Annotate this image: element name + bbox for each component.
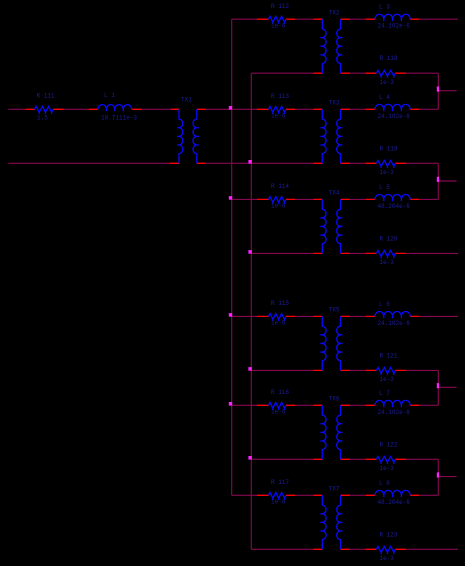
svg-text:1e-6: 1e-6 (271, 499, 286, 506)
svg-text:L 6: L 6 (379, 301, 390, 308)
svg-text:L 3: L 3 (379, 4, 390, 11)
svg-text:R 111: R 111 (37, 93, 55, 100)
svg-text:1e-6: 1e-6 (271, 320, 286, 327)
svg-text:1e-3: 1e-3 (380, 376, 395, 383)
svg-text:1e-6: 1e-6 (271, 22, 286, 29)
svg-text:R 121: R 121 (380, 352, 398, 359)
svg-text:48.204e-6: 48.204e-6 (378, 203, 411, 210)
svg-text:L 1: L 1 (104, 92, 115, 99)
svg-text:1e-6: 1e-6 (271, 113, 286, 120)
svg-text:1e-3: 1e-3 (380, 465, 395, 472)
svg-text:R 114: R 114 (271, 183, 289, 190)
svg-text:R 113: R 113 (271, 93, 289, 100)
svg-text:TX2: TX2 (329, 9, 340, 16)
svg-text:R 122: R 122 (380, 441, 398, 448)
svg-text:1e-3: 1e-3 (380, 259, 395, 266)
svg-text:R 118: R 118 (380, 55, 398, 62)
svg-text:24.102e-6: 24.102e-6 (378, 320, 411, 327)
svg-text:R 120: R 120 (380, 235, 398, 242)
svg-text:24.102e-6: 24.102e-6 (378, 409, 411, 416)
svg-text:TX6: TX6 (329, 396, 340, 403)
svg-text:L 7: L 7 (379, 390, 390, 397)
svg-text:TX7: TX7 (329, 486, 340, 493)
svg-text:L 5: L 5 (379, 184, 390, 191)
svg-text:R 119: R 119 (380, 145, 398, 152)
svg-text:1e-6: 1e-6 (271, 203, 286, 210)
svg-text:TX1: TX1 (181, 97, 192, 104)
svg-text:R 115: R 115 (271, 300, 289, 307)
svg-text:R 112: R 112 (271, 3, 289, 10)
svg-text:R 117: R 117 (271, 479, 289, 486)
svg-text:1e-3: 1e-3 (380, 169, 395, 176)
svg-text:TX5: TX5 (329, 307, 340, 314)
svg-text:1e-6: 1e-6 (271, 409, 286, 416)
svg-text:48.204e-6: 48.204e-6 (378, 499, 411, 506)
svg-text:18.7111e-3: 18.7111e-3 (101, 115, 137, 122)
svg-text:R 116: R 116 (271, 389, 289, 396)
svg-text:L 8: L 8 (379, 480, 390, 487)
svg-text:24.102e-6: 24.102e-6 (378, 23, 411, 30)
svg-text:1.5: 1.5 (37, 115, 48, 122)
svg-text:TX3: TX3 (329, 100, 340, 107)
svg-text:1e-3: 1e-3 (380, 79, 395, 86)
svg-text:L 4: L 4 (379, 94, 390, 101)
svg-text:24.102e-6: 24.102e-6 (378, 113, 411, 120)
svg-text:1e-3: 1e-3 (380, 555, 395, 562)
svg-text:TX4: TX4 (329, 190, 340, 197)
svg-text:R 123: R 123 (380, 531, 398, 538)
